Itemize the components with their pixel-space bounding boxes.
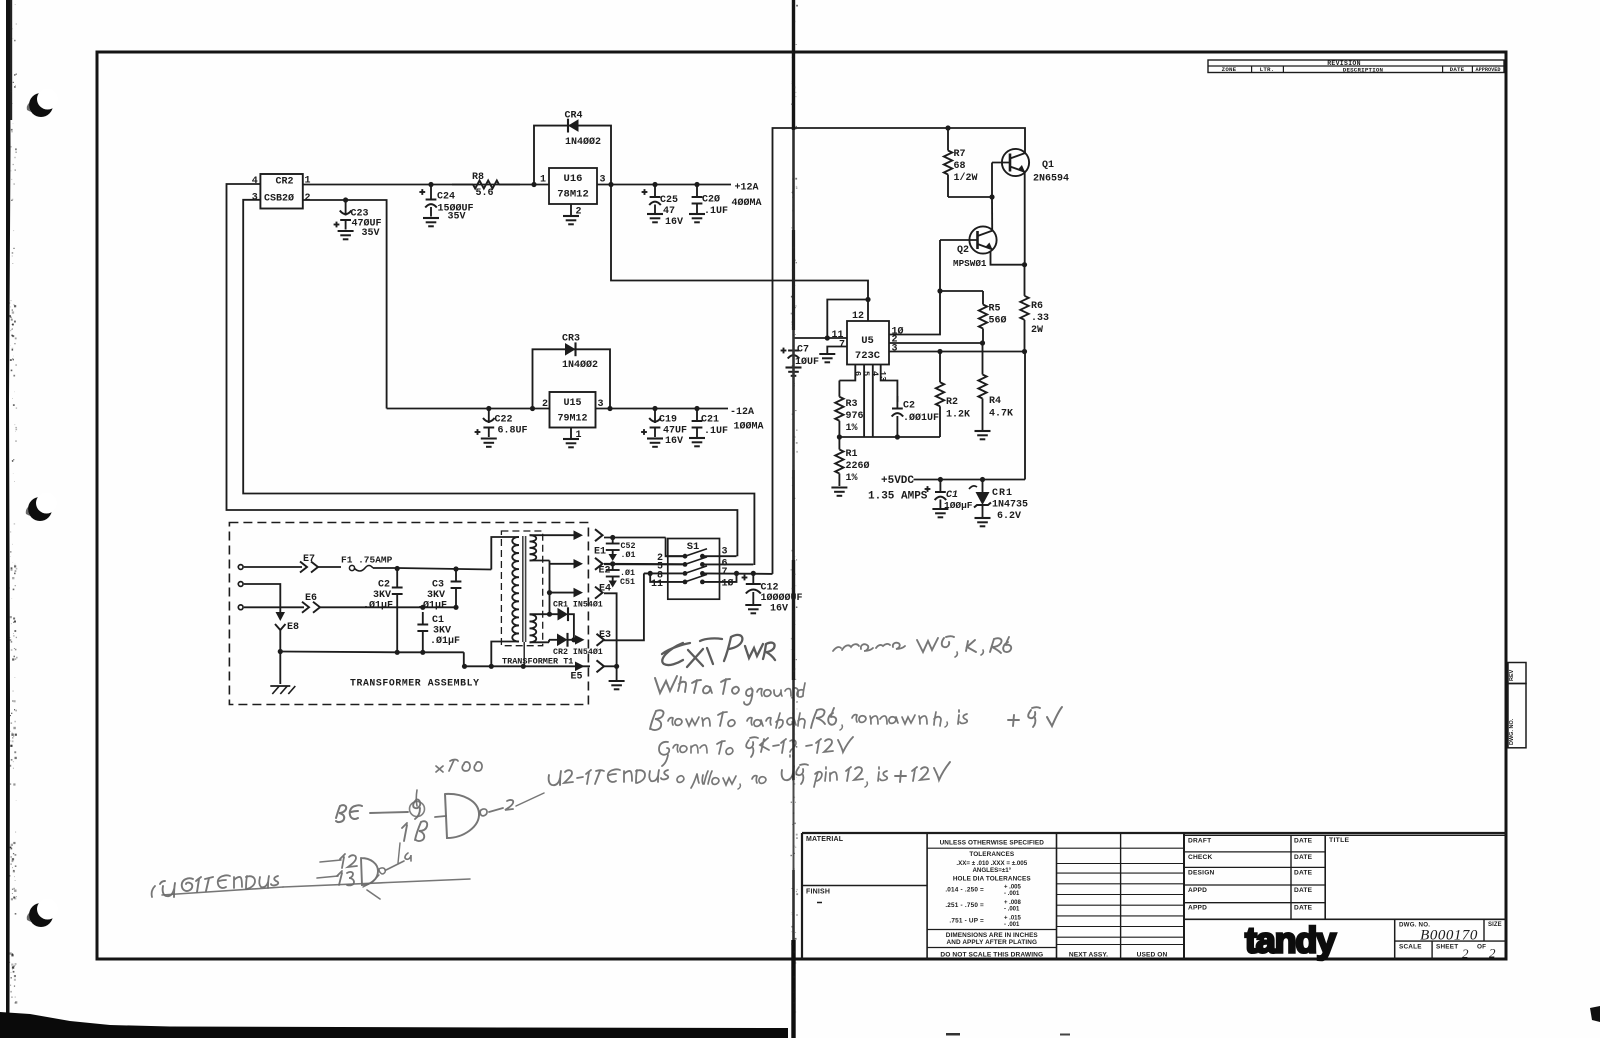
svg-text:Q2: Q2	[957, 245, 969, 256]
svg-text:+ .015: + .015	[1004, 915, 1022, 921]
svg-text:1ØØµF: 1ØØµF	[944, 500, 973, 511]
svg-text:R4: R4	[989, 396, 1001, 407]
svg-text:1: 1	[540, 175, 546, 186]
svg-text:3KV: 3KV	[373, 590, 391, 601]
svg-text:DESCRIPTION: DESCRIPTION	[1343, 66, 1384, 73]
svg-text:.251 - .750 =: .251 - .750 =	[945, 902, 984, 909]
svg-text:ZONE: ZONE	[1222, 66, 1237, 73]
svg-text:1N4ØØ2: 1N4ØØ2	[565, 136, 601, 148]
svg-text:.XX= ± .010 .XXX = ±.005: .XX= ± .010 .XXX = ±.005	[956, 860, 1027, 867]
svg-text:DATE: DATE	[1294, 869, 1313, 876]
svg-text:C51: C51	[620, 578, 635, 587]
svg-text:1: 1	[576, 430, 582, 441]
svg-text:4ØØMA: 4ØØMA	[732, 197, 762, 209]
svg-text:HOLE DIA TOLERANCES: HOLE DIA TOLERANCES	[953, 875, 1032, 882]
svg-text:ANGLES=±1°: ANGLES=±1°	[972, 867, 1011, 874]
svg-text:DO NOT SCALE THIS DRAWING: DO NOT SCALE THIS DRAWING	[940, 952, 1043, 959]
svg-text:tandy: tandy	[1245, 920, 1336, 961]
svg-text:R5: R5	[989, 304, 1001, 315]
svg-text:LTR.: LTR.	[1260, 66, 1275, 73]
svg-text:DATE: DATE	[1294, 837, 1313, 844]
svg-text:.014 - .250 =: .014 - .250 =	[945, 887, 984, 894]
svg-text:E1: E1	[594, 547, 606, 558]
svg-text:DATE: DATE	[1294, 905, 1313, 912]
svg-text:R8: R8	[472, 172, 484, 183]
svg-text:CHECK: CHECK	[1188, 854, 1212, 861]
svg-text:.1UF: .1UF	[704, 426, 728, 437]
svg-text:B000170: B000170	[1420, 928, 1478, 944]
svg-text:35V: 35V	[362, 228, 380, 239]
svg-text:C21: C21	[701, 415, 719, 426]
svg-text:C24: C24	[437, 192, 455, 203]
svg-text:- .001: - .001	[1004, 922, 1020, 928]
svg-text:5.6: 5.6	[476, 188, 494, 199]
svg-text:E2: E2	[599, 566, 611, 577]
svg-text:C2Ø: C2Ø	[702, 194, 720, 206]
svg-text:MPSWØ1: MPSWØ1	[953, 258, 987, 269]
svg-text:1%: 1%	[846, 423, 858, 434]
svg-text:-12A: -12A	[730, 407, 754, 418]
svg-text:DATE: DATE	[1294, 887, 1313, 894]
svg-text:1Ø: 1Ø	[722, 578, 734, 590]
svg-text:C2: C2	[903, 401, 915, 412]
svg-text:+ .008: + .008	[1004, 900, 1022, 906]
svg-text:Q1: Q1	[1042, 160, 1054, 171]
svg-text:CR4: CR4	[565, 111, 583, 122]
svg-text:2: 2	[1462, 946, 1469, 961]
svg-text:976: 976	[846, 411, 864, 422]
svg-text:REV: REV	[1509, 669, 1515, 681]
svg-text:3: 3	[252, 193, 258, 204]
svg-text:USED ON: USED ON	[1137, 952, 1168, 959]
svg-text:+5VDC: +5VDC	[881, 475, 914, 487]
svg-text:F1 .75AMP: F1 .75AMP	[341, 555, 393, 566]
svg-text:C2: C2	[378, 580, 390, 591]
svg-text:APPD: APPD	[1188, 905, 1207, 912]
svg-text:U15: U15	[563, 398, 581, 409]
svg-text:7: 7	[722, 567, 728, 578]
svg-text:CR2 IN54Ø1: CR2 IN54Ø1	[553, 647, 603, 657]
svg-text:R1: R1	[846, 449, 858, 460]
svg-text:47UF: 47UF	[663, 426, 687, 437]
svg-text:E3: E3	[599, 630, 611, 641]
svg-text:MATERIAL: MATERIAL	[806, 836, 844, 843]
svg-text:C25: C25	[660, 195, 678, 206]
svg-text:SCALE: SCALE	[1399, 944, 1422, 951]
svg-text:SHEET: SHEET	[1436, 944, 1458, 951]
svg-text:1.2K: 1.2K	[946, 410, 970, 421]
svg-text:47: 47	[663, 206, 675, 217]
svg-text:68: 68	[954, 161, 966, 172]
svg-text:226Ø: 226Ø	[846, 460, 870, 472]
svg-text:2W: 2W	[1031, 325, 1043, 336]
svg-text:AND APPLY AFTER PLATING: AND APPLY AFTER PLATING	[947, 939, 1037, 946]
svg-text:11: 11	[651, 579, 663, 590]
svg-text:C22: C22	[495, 415, 513, 426]
svg-text:2: 2	[1489, 946, 1496, 961]
svg-text:E8: E8	[287, 622, 299, 633]
svg-text:APPD: APPD	[1188, 887, 1207, 894]
svg-text:16V: 16V	[665, 436, 683, 447]
svg-text:CR2: CR2	[275, 176, 293, 187]
svg-text:.751 - UP =: .751 - UP =	[949, 918, 984, 925]
svg-text:2: 2	[576, 207, 582, 218]
svg-text:7: 7	[839, 340, 845, 351]
svg-text:35V: 35V	[448, 211, 466, 222]
svg-text:1%: 1%	[846, 473, 858, 484]
svg-text:TITLE: TITLE	[1329, 837, 1350, 844]
svg-text:TRANSFORMER T1: TRANSFORMER T1	[502, 657, 573, 667]
svg-text:2N6594: 2N6594	[1033, 174, 1069, 185]
svg-text:3KV: 3KV	[433, 626, 451, 637]
svg-text:DIMENSIONS ARE IN INCHES: DIMENSIONS ARE IN INCHES	[946, 932, 1039, 939]
svg-text:6.8UF: 6.8UF	[498, 426, 528, 437]
svg-text:.Ø1: .Ø1	[620, 568, 635, 578]
svg-text:1ØØØØUF: 1ØØØØUF	[761, 592, 803, 604]
svg-text:1N4ØØ2: 1N4ØØ2	[562, 359, 598, 371]
svg-text:.ØØ1UF: .ØØ1UF	[903, 412, 939, 424]
svg-text:16V: 16V	[770, 604, 788, 615]
svg-text:1ØØMA: 1ØØMA	[734, 421, 764, 433]
svg-text:U16: U16	[564, 173, 583, 185]
svg-text:78M12: 78M12	[557, 189, 589, 201]
svg-text:.Ø1µF: .Ø1µF	[363, 600, 393, 612]
svg-text:CR1 IN54Ø1: CR1 IN54Ø1	[553, 600, 603, 610]
svg-text:C1: C1	[432, 615, 444, 626]
svg-text:1/2W: 1/2W	[954, 172, 978, 184]
svg-text:1ØUF: 1ØUF	[795, 356, 819, 368]
svg-text:APPROVED: APPROVED	[1476, 67, 1501, 73]
svg-text:+12A: +12A	[735, 183, 759, 194]
svg-text:5: 5	[861, 371, 871, 376]
svg-text:1.35 AMPS: 1.35 AMPS	[868, 491, 928, 503]
svg-text:R2: R2	[946, 397, 958, 408]
svg-text:.33: .33	[1031, 313, 1049, 324]
svg-text:DATE: DATE	[1450, 66, 1465, 73]
svg-text:DWG. NO.: DWG. NO.	[1509, 718, 1515, 745]
svg-text:E5: E5	[571, 672, 583, 683]
svg-text:3: 3	[892, 343, 898, 354]
svg-text:12: 12	[852, 311, 864, 322]
svg-text:NEXT ASSY.: NEXT ASSY.	[1069, 952, 1108, 959]
svg-text:56Ø: 56Ø	[989, 315, 1007, 327]
svg-text:FINISH: FINISH	[806, 889, 830, 896]
svg-text:1N4735: 1N4735	[992, 500, 1028, 511]
svg-text:C19: C19	[659, 415, 677, 426]
svg-text:.Ø1µF: .Ø1µF	[430, 635, 460, 647]
svg-text:79M12: 79M12	[557, 414, 587, 425]
svg-text:.Ø1: .Ø1	[621, 550, 636, 560]
svg-text:- .001: - .001	[1004, 891, 1020, 897]
svg-text:CSB2Ø: CSB2Ø	[264, 193, 294, 205]
svg-text:TRANSFORMER ASSEMBLY: TRANSFORMER ASSEMBLY	[350, 678, 480, 689]
svg-text:CR1: CR1	[992, 488, 1013, 499]
svg-text:SIZE: SIZE	[1488, 922, 1502, 928]
svg-text:- .001: - .001	[1004, 906, 1020, 912]
svg-text:4.7K: 4.7K	[989, 409, 1013, 420]
svg-text:2: 2	[305, 193, 311, 204]
svg-text:OF: OF	[1477, 943, 1486, 950]
svg-text:.1UF: .1UF	[704, 206, 728, 217]
svg-text:C12: C12	[761, 583, 779, 594]
svg-text:4: 4	[252, 176, 258, 187]
svg-text:CR3: CR3	[562, 334, 580, 345]
svg-text:6: 6	[852, 371, 862, 376]
svg-text:+ .005: + .005	[1004, 884, 1022, 890]
svg-text:723C: 723C	[855, 350, 881, 362]
svg-text:U5: U5	[861, 335, 874, 347]
svg-text:16V: 16V	[665, 217, 683, 228]
svg-text:UNLESS OTHERWISE SPECIFIED: UNLESS OTHERWISE SPECIFIED	[940, 840, 1045, 847]
svg-text:R7: R7	[954, 149, 966, 160]
svg-text:DESIGN: DESIGN	[1188, 869, 1215, 876]
svg-text:C52: C52	[621, 542, 636, 551]
svg-text:C3: C3	[432, 580, 444, 591]
svg-text:3KV: 3KV	[427, 590, 445, 601]
svg-text:R6: R6	[1031, 301, 1043, 312]
svg-text:6.2V: 6.2V	[997, 511, 1021, 522]
svg-text:TOLERANCES: TOLERANCES	[969, 851, 1015, 858]
svg-text:R3: R3	[846, 399, 858, 410]
svg-text:DATE: DATE	[1294, 854, 1313, 861]
svg-text:DRAFT: DRAFT	[1188, 837, 1211, 844]
svg-text:C7: C7	[797, 345, 809, 356]
